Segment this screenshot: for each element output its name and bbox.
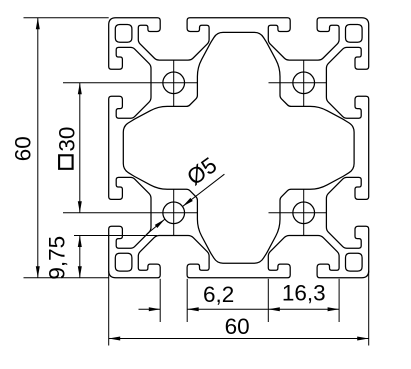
top-left core hole (diam 5)	[163, 72, 185, 94]
bottom-left core hole (diam 5)	[163, 202, 185, 224]
bottom-left corner cavity	[115, 253, 132, 271]
bottom-right corner cavity	[346, 253, 363, 271]
svg-text:Ø5: Ø5	[182, 152, 221, 190]
top-right core hole (diam 5)	[293, 72, 315, 94]
svg-text:9,75: 9,75	[44, 236, 69, 280]
dim 9,75	[74, 235, 157, 237]
svg-text:6,2: 6,2	[203, 282, 234, 307]
left dim 60	[24, 17, 109, 19]
svg-text:60: 60	[225, 314, 250, 339]
svg-text:16,3: 16,3	[282, 280, 326, 305]
top-left corner cavity	[115, 25, 132, 43]
bottom dim 60	[108, 271, 110, 346]
top-right corner cavity	[346, 25, 363, 43]
central cross cavity	[123, 32, 354, 263]
profile outer boundary with 8 T-slots	[109, 18, 369, 278]
svg-text:30: 30	[55, 127, 80, 152]
centerlines	[173, 60, 175, 106]
bottom dim 16,3	[267, 279, 269, 322]
leader diam 5	[183, 174, 225, 206]
bottom-right core hole (diam 5)	[293, 202, 315, 224]
bottom dim 6,2	[159, 279, 161, 322]
svg-text:60: 60	[11, 136, 36, 161]
dim sq30	[79, 83, 81, 213]
